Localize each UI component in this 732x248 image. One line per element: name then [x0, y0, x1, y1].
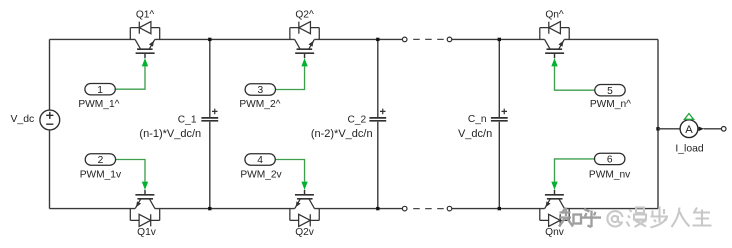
svg-text:C_1: C_1	[178, 114, 197, 125]
wire arrow after ammeter	[699, 127, 704, 132]
svg-text:(n-2)*V_dc/n: (n-2)*V_dc/n	[311, 128, 373, 140]
transistor Q2^ (IGBT with anti-parallel diode)	[290, 22, 319, 59]
inport 6 (PWM_nv)	[595, 153, 625, 165]
measurement marker (green)	[684, 114, 693, 120]
svg-text:Qnv: Qnv	[545, 227, 565, 238]
wire: PWM_1^ signal to Q1^ gate	[115, 66, 145, 89]
wire: PWM_nv signal to Qnv gate	[555, 159, 595, 182]
svg-text:A: A	[685, 124, 693, 136]
wire: PWM_n^ signal to Qn^ gate	[555, 66, 595, 90]
svg-text:Q1^: Q1^	[136, 9, 155, 20]
svg-text:I_load: I_load	[675, 144, 704, 155]
svg-text:6: 6	[607, 155, 613, 166]
capacitor C_1	[201, 109, 218, 121]
transistor Q1^ (IGBT with anti-parallel diode)	[130, 22, 159, 59]
svg-text:Qn^: Qn^	[545, 9, 564, 20]
watermark: 知乎 @漫步人生 (drawn strokes)	[559, 207, 712, 228]
wire: left rail with V_dc break	[49, 39, 51, 208]
dashed continuation, bottom rail	[402, 206, 451, 211]
transistor Q1v (IGBT with anti-parallel diode, lower)	[130, 190, 159, 227]
output terminal (open circle)	[721, 127, 726, 132]
inport 2 (PWM_1v)	[85, 154, 115, 166]
dashed continuation, top rail	[402, 37, 451, 42]
transistor Qn^ (IGBT with anti-parallel diode)	[540, 22, 569, 59]
voltage source V_dc	[40, 110, 60, 130]
capacitor C_n	[491, 109, 508, 121]
svg-text:Q2v: Q2v	[295, 227, 315, 238]
svg-text:PWM_1v: PWM_1v	[80, 169, 122, 180]
svg-text:2: 2	[98, 155, 104, 166]
inport 3 (PWM_2^)	[245, 84, 275, 96]
svg-text:Q1v: Q1v	[137, 227, 157, 238]
wire: PWM_1v signal to Q1v gate	[116, 160, 145, 182]
wire: bottom rail segments	[50, 208, 659, 210]
svg-text:1: 1	[97, 85, 103, 96]
svg-text:PWM_1^: PWM_1^	[78, 99, 119, 110]
svg-text:4: 4	[257, 155, 263, 166]
inport 4 (PWM_2v)	[245, 154, 275, 166]
svg-text:(n-1)*V_dc/n: (n-1)*V_dc/n	[139, 128, 201, 140]
wire: vertical node rail at C_n	[498, 39, 500, 208]
svg-text:V_dc/n: V_dc/n	[458, 128, 492, 140]
transistor Qnv (IGBT with anti-parallel diode, lower)	[540, 190, 569, 227]
svg-text:Q2^: Q2^	[295, 9, 314, 20]
wire: PWM_2v signal to Q2v gate	[275, 160, 304, 182]
wire: ammeter to output terminal	[704, 128, 722, 130]
svg-text:PWM_n^: PWM_n^	[590, 99, 631, 110]
svg-text:3: 3	[257, 85, 263, 96]
inport 1 (PWM_1^)	[85, 84, 115, 96]
svg-text:C_2: C_2	[347, 114, 366, 125]
ammeter I_load	[680, 114, 698, 138]
transistor Q2v (IGBT with anti-parallel diode, lower)	[290, 190, 319, 227]
svg-text:V_dc: V_dc	[11, 114, 35, 125]
svg-text:C_n: C_n	[468, 114, 487, 125]
wire: right rail	[657, 39, 659, 208]
wire: top rail segments	[50, 38, 659, 40]
svg-text:PWM_nv: PWM_nv	[589, 169, 631, 180]
wire: vertical node rail at C_2	[377, 39, 379, 208]
svg-text:PWM_2v: PWM_2v	[240, 170, 282, 181]
svg-text:5: 5	[607, 86, 613, 97]
inport 5 (PWM_n^)	[595, 85, 625, 97]
wire: vertical node rail at C_1	[209, 39, 211, 208]
wire: node to ammeter	[658, 128, 680, 130]
capacitor C_2	[369, 109, 386, 121]
svg-text:PWM_2^: PWM_2^	[239, 99, 280, 110]
wire: PWM_2^ signal to Q2^ gate	[276, 66, 305, 89]
